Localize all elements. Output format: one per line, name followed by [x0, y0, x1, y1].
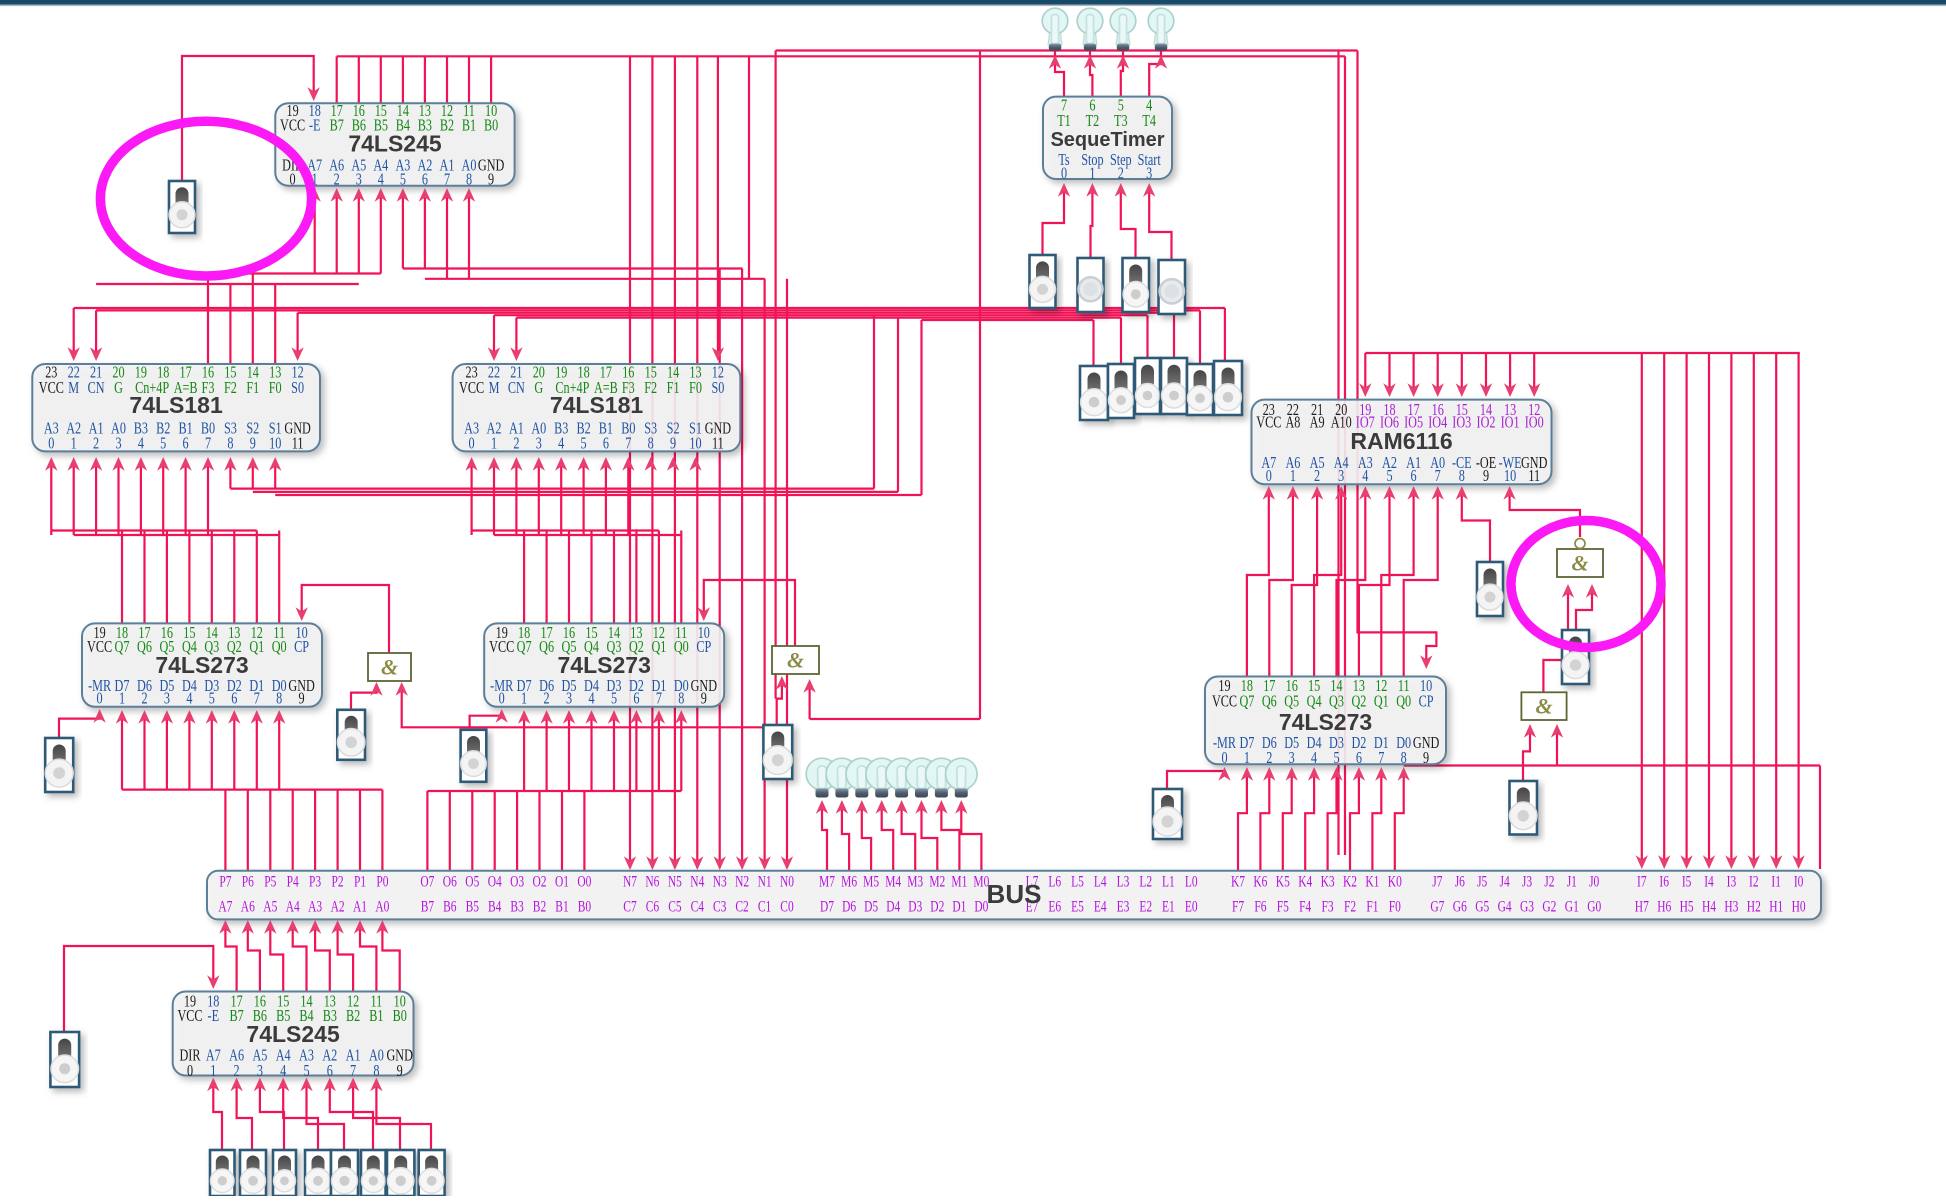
svg-text:F0: F0 — [1389, 898, 1401, 915]
svg-text:E0: E0 — [1185, 898, 1198, 915]
svg-text:3: 3 — [1338, 468, 1344, 486]
svg-text:IO0: IO0 — [1525, 414, 1544, 432]
svg-text:D4: D4 — [886, 898, 900, 915]
svg-text:Q6: Q6 — [137, 638, 152, 656]
S rails (ALU mode/select) y=488-495 — [230, 488, 874, 490]
svg-text:L1: L1 — [1162, 873, 1175, 890]
svg-text:E3: E3 — [1117, 898, 1130, 915]
svg-text:N7: N7 — [623, 873, 637, 890]
svg-text:2: 2 — [1118, 165, 1124, 183]
svg-text:6: 6 — [1356, 749, 1362, 767]
svg-text:5: 5 — [611, 690, 617, 708]
svg-text:A0: A0 — [375, 898, 389, 915]
svg-text:K5: K5 — [1276, 873, 1290, 890]
svg-text:CN: CN — [508, 379, 525, 397]
svg-text:O6: O6 — [443, 873, 457, 890]
svg-text:8: 8 — [1459, 468, 1465, 486]
svg-text:3: 3 — [356, 171, 362, 189]
svg-text:J3: J3 — [1522, 873, 1532, 890]
svg-text:RAM6116: RAM6116 — [1350, 428, 1452, 454]
svg-text:C3: C3 — [713, 898, 727, 915]
svg-text:A3: A3 — [308, 898, 322, 915]
push switch S27 (data input row) — [387, 1150, 414, 1196]
svg-text:F1: F1 — [246, 379, 259, 397]
svg-text:F7: F7 — [1232, 898, 1244, 915]
svg-text:&: & — [1535, 694, 1552, 719]
svg-text:3: 3 — [1289, 749, 1295, 767]
svg-text:M7: M7 — [819, 873, 835, 890]
svg-text:L5: L5 — [1071, 873, 1084, 890]
svg-text:J1: J1 — [1567, 873, 1577, 890]
U7 B outputs up to BUS A group — [225, 923, 236, 992]
svg-text:4: 4 — [588, 690, 595, 708]
svg-text:P2: P2 — [332, 873, 344, 890]
U8 Q outputs up to RAM address inputs — [1247, 490, 1269, 677]
IC U7 74LS245 bus transceiver (bottom) — [173, 992, 414, 1076]
svg-text:D3: D3 — [908, 898, 922, 915]
svg-text:7: 7 — [656, 690, 662, 708]
svg-text:H3: H3 — [1724, 898, 1738, 915]
svg-text:8: 8 — [466, 171, 472, 189]
svg-text:1: 1 — [521, 690, 527, 708]
svg-text:11: 11 — [292, 435, 304, 453]
svg-text:3: 3 — [115, 435, 121, 453]
push switch S9 (select row) — [1161, 358, 1187, 414]
wire: upper clock rail (y=50.5) — [776, 49, 1358, 51]
svg-text:M: M — [489, 379, 500, 397]
svg-text:11: 11 — [1528, 468, 1540, 486]
svg-text:B2: B2 — [346, 1007, 360, 1025]
svg-text:5: 5 — [209, 690, 215, 708]
svg-text:M5: M5 — [863, 873, 879, 890]
verticals: U1 bottom pins down to jogs — [314, 196, 316, 274]
svg-text:6: 6 — [183, 435, 189, 453]
svg-text:74LS181: 74LS181 — [550, 392, 644, 418]
svg-text:K6: K6 — [1253, 873, 1267, 890]
lamp L6 (bus M6) — [835, 784, 849, 790]
svg-text:Q6: Q6 — [1262, 693, 1277, 711]
svg-text:4: 4 — [378, 171, 385, 189]
svg-text:10: 10 — [689, 435, 701, 453]
horizontal y=770.5 to right side and bus — [1404, 764, 1820, 766]
IC U9 SequeTimer sequencer — [1043, 97, 1172, 179]
svg-text:G2: G2 — [1542, 898, 1556, 915]
svg-text:B2: B2 — [440, 117, 454, 135]
svg-text:K3: K3 — [1321, 873, 1335, 890]
svg-text:1: 1 — [491, 435, 497, 453]
svg-text:B1: B1 — [462, 117, 476, 135]
svg-text:VCC: VCC — [39, 379, 64, 397]
toggle switch S2 Ts input — [1030, 255, 1056, 308]
toggle switch S15 AND A2 input — [763, 725, 792, 779]
svg-text:Q7: Q7 — [517, 638, 532, 656]
annotation ellipse (top-left, around switch S1) — [100, 121, 311, 276]
svg-text:3: 3 — [536, 435, 542, 453]
IC U2 74LS181 ALU (left) — [32, 364, 320, 451]
svg-text:O4: O4 — [488, 873, 502, 890]
svg-text:G: G — [114, 379, 123, 397]
push switch S20 -E U7 — [50, 1032, 79, 1087]
push switch S10 (select row) — [1187, 364, 1213, 415]
svg-text:T1: T1 — [1057, 112, 1071, 130]
toggle switch S1 (circled, top-left) — [169, 181, 195, 233]
svg-text:D5: D5 — [864, 898, 878, 915]
svg-text:7: 7 — [1435, 468, 1441, 486]
svg-text:7: 7 — [254, 690, 260, 708]
svg-text:B0: B0 — [578, 898, 592, 915]
switch to U-A3 input — [1576, 588, 1592, 630]
IC U6 74LS273 register (middle) — [484, 623, 724, 706]
svg-text:O2: O2 — [532, 873, 546, 890]
svg-text:6: 6 — [1411, 468, 1417, 486]
svg-text:9: 9 — [250, 435, 256, 453]
svg-text:N5: N5 — [668, 873, 682, 890]
lamp L12 (bus M0) — [954, 784, 968, 790]
svg-text:7: 7 — [205, 435, 211, 453]
svg-text:F2: F2 — [644, 379, 657, 397]
svg-text:CP: CP — [1419, 693, 1434, 711]
svg-text:0: 0 — [290, 171, 296, 189]
svg-text:G4: G4 — [1498, 898, 1512, 915]
svg-text:Q1: Q1 — [249, 638, 264, 656]
svg-text:B7: B7 — [229, 1007, 243, 1025]
svg-text:B4: B4 — [488, 898, 502, 915]
wire: pale vertical pair x=1338.5/1345 through RAM/273 — [1337, 51, 1339, 856]
svg-text:K7: K7 — [1231, 873, 1245, 890]
svg-text:1: 1 — [1290, 468, 1296, 486]
svg-text:VCC: VCC — [1212, 693, 1237, 711]
svg-text:8: 8 — [227, 435, 233, 453]
switch to -CE of RAM — [1462, 492, 1490, 562]
push switch S21 (data input row) — [210, 1150, 235, 1196]
svg-text:0: 0 — [187, 1062, 193, 1080]
svg-text:2: 2 — [334, 171, 340, 189]
O rail: BUS O group up to D inputs of U6 — [427, 790, 681, 792]
svg-text:0: 0 — [1266, 468, 1272, 486]
svg-text:Q0: Q0 — [674, 638, 689, 656]
lamp L4 (timer T4) — [1154, 29, 1168, 45]
lamp L1 (timer T1) — [1048, 29, 1062, 45]
svg-text:C0: C0 — [780, 898, 794, 915]
svg-text:3: 3 — [1146, 165, 1152, 183]
svg-text:CP: CP — [696, 638, 711, 656]
switch near bus to -MR of U8 — [1167, 771, 1225, 789]
svg-text:-E: -E — [208, 1007, 220, 1025]
svg-text:G6: G6 — [1453, 898, 1467, 915]
svg-text:2: 2 — [513, 435, 519, 453]
svg-text:8: 8 — [678, 690, 684, 708]
svg-text:E2: E2 — [1139, 898, 1152, 915]
svg-text:0: 0 — [1221, 749, 1227, 767]
svg-text:A7: A7 — [218, 898, 232, 915]
svg-text:4: 4 — [186, 690, 193, 708]
svg-text:G3: G3 — [1520, 898, 1534, 915]
svg-text:A2: A2 — [331, 898, 345, 915]
svg-text:C4: C4 — [691, 898, 705, 915]
svg-text:N0: N0 — [780, 873, 794, 890]
IC U1 74LS245 bus transceiver (top) — [275, 103, 514, 186]
wire: switch S1 to -E of 74LS245 U1 — [182, 56, 314, 183]
svg-text:1: 1 — [71, 435, 77, 453]
svg-text:&: & — [787, 648, 804, 673]
svg-text:P6: P6 — [242, 873, 254, 890]
push switch S6 (select row) — [1080, 366, 1108, 420]
AND gate A1 — [368, 653, 411, 681]
wires: switches to SequeTimer inputs — [1043, 190, 1065, 255]
svg-text:Q0: Q0 — [1396, 693, 1411, 711]
svg-text:I3: I3 — [1727, 873, 1737, 890]
toggle switch S13 (on y=727 net) — [461, 730, 487, 782]
svg-text:CP: CP — [294, 638, 309, 656]
lamp L8 (bus M4) — [875, 784, 889, 790]
svg-text:M2: M2 — [929, 873, 945, 890]
svg-text:0: 0 — [48, 435, 54, 453]
svg-text:P7: P7 — [219, 873, 231, 890]
svg-text:B3: B3 — [510, 898, 524, 915]
wires: SequeTimer T1-T4 up to lamps — [1055, 50, 1064, 97]
push switch S25 (data input row) — [331, 1150, 358, 1196]
svg-text:G1: G1 — [1565, 898, 1579, 915]
svg-text:N6: N6 — [645, 873, 659, 890]
svg-text:7: 7 — [444, 171, 450, 189]
toggle switch S19 -MR U8 — [1153, 789, 1182, 839]
svg-text:VCC: VCC — [459, 379, 484, 397]
push switch S4 Step input — [1123, 258, 1150, 312]
svg-text:H0: H0 — [1792, 898, 1806, 915]
svg-text:74LS245: 74LS245 — [246, 1021, 340, 1047]
svg-text:G: G — [534, 379, 543, 397]
push switch S28 (data input row) — [419, 1150, 445, 1196]
svg-text:5: 5 — [1333, 749, 1339, 767]
svg-text:S0: S0 — [291, 379, 304, 397]
svg-text:9: 9 — [670, 435, 676, 453]
svg-text:F1: F1 — [667, 379, 680, 397]
BUS bar — [207, 871, 1821, 920]
svg-text:4: 4 — [280, 1062, 287, 1080]
svg-text:G0: G0 — [1587, 898, 1601, 915]
toggle switch S3 Stop input — [1078, 258, 1104, 312]
trunk right drops to switch row — [1224, 308, 1226, 361]
svg-text:VCC: VCC — [280, 117, 305, 135]
top title bar — [0, 0, 1946, 3]
svg-text:C2: C2 — [735, 898, 749, 915]
svg-text:2: 2 — [1266, 749, 1272, 767]
U-A4 right input from y=770 line — [1556, 728, 1558, 766]
svg-text:VCC: VCC — [489, 638, 514, 656]
BUS K group up to D inputs of U8 — [1238, 771, 1247, 871]
svg-text:5: 5 — [581, 435, 587, 453]
svg-text:4: 4 — [138, 435, 145, 453]
svg-text:J5: J5 — [1477, 873, 1487, 890]
svg-text:O3: O3 — [510, 873, 524, 890]
svg-text:N4: N4 — [690, 873, 704, 890]
annotation ellipse (right, around NAND A3) — [1511, 521, 1661, 648]
svg-text:CN: CN — [88, 379, 105, 397]
toggle switch S12 -MR U5 — [45, 738, 73, 792]
svg-text:P3: P3 — [309, 873, 321, 890]
svg-text:H4: H4 — [1702, 898, 1716, 915]
svg-text:S0: S0 — [711, 379, 724, 397]
lamp L7 (bus M5) — [855, 784, 869, 790]
svg-text:I7: I7 — [1637, 873, 1647, 890]
svg-text:10: 10 — [269, 435, 281, 453]
svg-text:4: 4 — [558, 435, 565, 453]
svg-text:I6: I6 — [1659, 873, 1669, 890]
svg-text:IO1: IO1 — [1501, 414, 1520, 432]
AND gate A2 — [772, 646, 819, 674]
svg-text:I2: I2 — [1749, 873, 1759, 890]
IC U3 74LS181 ALU (right) — [453, 364, 741, 451]
svg-text:B0: B0 — [393, 1007, 407, 1025]
svg-text:9: 9 — [488, 171, 494, 189]
svg-text:D7: D7 — [820, 898, 834, 915]
svg-text:C5: C5 — [668, 898, 682, 915]
svg-text:Q6: Q6 — [539, 638, 554, 656]
Q-to-AB rails right pair — [472, 529, 659, 531]
svg-text:E5: E5 — [1071, 898, 1084, 915]
svg-text:B1: B1 — [555, 898, 568, 915]
svg-text:Q0: Q0 — [272, 638, 287, 656]
trunk left drops into ALU control pins — [73, 308, 75, 356]
switch to -E of 74LS245 U7 — [64, 946, 213, 1032]
svg-text:L6: L6 — [1048, 873, 1061, 890]
AND U-A1 inputs — [351, 686, 377, 710]
svg-text:G5: G5 — [1475, 898, 1489, 915]
svg-text:F6: F6 — [1254, 898, 1266, 915]
lamp L2 (timer T2) — [1083, 29, 1097, 45]
svg-text:10: 10 — [1504, 468, 1516, 486]
svg-text:5: 5 — [1386, 468, 1392, 486]
svg-text:B6: B6 — [443, 898, 457, 915]
svg-text:A9: A9 — [1310, 414, 1325, 432]
svg-text:C7: C7 — [623, 898, 637, 915]
trunk drops to S rails — [873, 315, 875, 488]
svg-text:D2: D2 — [930, 898, 944, 915]
svg-text:9: 9 — [701, 690, 707, 708]
AND U-A4 output to U-A3 input — [1543, 588, 1568, 692]
toggle switch S5 Start input — [1159, 260, 1186, 314]
svg-text:Q1: Q1 — [1374, 693, 1389, 711]
wire: vertical x=1357.5 down through RAM to CP of U8 — [1358, 51, 1437, 667]
svg-text:F5: F5 — [1277, 898, 1289, 915]
svg-text:A8: A8 — [1285, 414, 1300, 432]
svg-text:2: 2 — [544, 690, 550, 708]
svg-text:K4: K4 — [1298, 873, 1312, 890]
svg-text:7: 7 — [625, 435, 631, 453]
svg-text:VCC: VCC — [1256, 414, 1281, 432]
toggle switch S17 AND A3 input — [1562, 630, 1589, 684]
svg-text:K2: K2 — [1343, 873, 1357, 890]
wire: B-pin rail of U1 (y=56) — [337, 55, 1345, 57]
svg-text:M3: M3 — [907, 873, 923, 890]
svg-text:6: 6 — [603, 435, 609, 453]
svg-text:0: 0 — [499, 690, 505, 708]
svg-text:6: 6 — [422, 171, 428, 189]
svg-text:4: 4 — [1311, 749, 1318, 767]
svg-text:74LS245: 74LS245 — [348, 131, 442, 157]
svg-text:N1: N1 — [758, 873, 772, 890]
svg-text:74LS273: 74LS273 — [1279, 709, 1372, 735]
long verticals to BUS N group (pass under chips) — [629, 56, 631, 868]
svg-text:F1: F1 — [1366, 898, 1378, 915]
svg-text:Q7: Q7 — [1239, 693, 1254, 711]
svg-text:8: 8 — [648, 435, 654, 453]
svg-text:P5: P5 — [264, 873, 276, 890]
push switch S11 (select row) — [1214, 361, 1242, 415]
Q-to-AB rails left pair y=530/535 — [51, 529, 256, 531]
svg-text:G7: G7 — [1430, 898, 1444, 915]
svg-text:P0: P0 — [376, 873, 388, 890]
svg-text:M1: M1 — [951, 873, 967, 890]
svg-text:5: 5 — [400, 171, 406, 189]
push switch S24 (data input row) — [305, 1150, 331, 1196]
svg-text:B7: B7 — [330, 117, 344, 135]
svg-text:BUS: BUS — [987, 879, 1042, 909]
svg-text:6: 6 — [231, 690, 237, 708]
svg-text:VCC: VCC — [177, 1007, 202, 1025]
wire: left switch to -MR of U5 — [59, 713, 100, 738]
AND gate U-A2 output to CP of 74LS273 U6 — [704, 580, 795, 646]
push switch S8 (select row) — [1135, 358, 1160, 414]
svg-text:O7: O7 — [420, 873, 434, 890]
lamp L11 (bus M1) — [934, 784, 948, 790]
svg-text:P4: P4 — [287, 873, 299, 890]
svg-text:I0: I0 — [1794, 873, 1804, 890]
svg-text:&: & — [1571, 551, 1588, 576]
svg-text:0: 0 — [97, 690, 103, 708]
svg-text:I4: I4 — [1704, 873, 1714, 890]
svg-text:8: 8 — [276, 690, 282, 708]
svg-text:5: 5 — [160, 435, 166, 453]
jog cluster between U1 and ALUs — [403, 267, 743, 269]
svg-text:2: 2 — [93, 435, 99, 453]
lamp L3 (timer T3) — [1116, 29, 1130, 45]
svg-text:M: M — [68, 379, 79, 397]
push switch S7 (select row) — [1108, 364, 1134, 418]
svg-text:D6: D6 — [842, 898, 856, 915]
svg-text:O0: O0 — [577, 873, 591, 890]
svg-text:N2: N2 — [735, 873, 749, 890]
push switch S23 (data input row) — [273, 1150, 296, 1196]
svg-text:6: 6 — [633, 690, 639, 708]
svg-text:Q1: Q1 — [651, 638, 666, 656]
svg-text:F2: F2 — [224, 379, 237, 397]
BUS M group up to lamp row — [822, 803, 827, 871]
lamp L5 (bus M7) — [815, 784, 829, 790]
AND gate U-A1 output to CP of 74LS273 U5 — [302, 585, 389, 653]
svg-text:O1: O1 — [555, 873, 569, 890]
svg-text:L4: L4 — [1094, 873, 1107, 890]
wire: S0 of ALU2 fed from top rail — [717, 56, 719, 356]
switch to U-A4 input — [1523, 728, 1530, 781]
NAND U-A3 to -WE of RAM — [1510, 492, 1580, 537]
svg-text:F0: F0 — [689, 379, 702, 397]
svg-text:7: 7 — [1378, 749, 1384, 767]
lamp L10 (bus M2) — [915, 784, 929, 790]
svg-text:K1: K1 — [1365, 873, 1379, 890]
wire: rail corner down at x=749 — [748, 56, 750, 278]
svg-text:0: 0 — [1061, 165, 1067, 183]
svg-text:2: 2 — [1314, 468, 1320, 486]
svg-text:T3: T3 — [1114, 112, 1128, 130]
svg-text:J2: J2 — [1544, 873, 1554, 890]
toggle switch S14 AND A1 input — [337, 710, 365, 760]
svg-text:B0: B0 — [484, 117, 498, 135]
svg-text:3: 3 — [164, 690, 170, 708]
svg-text:E4: E4 — [1094, 898, 1107, 915]
verticals: F outputs of ALU1 up to jogs — [207, 274, 209, 365]
svg-text:B5: B5 — [466, 898, 480, 915]
